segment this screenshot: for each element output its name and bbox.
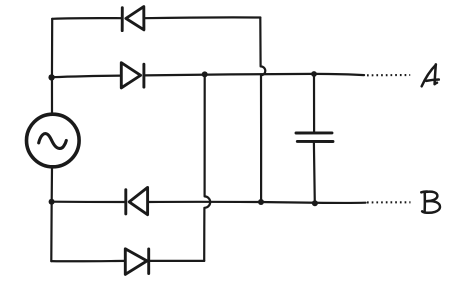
wire row 4 left segment <box>51 260 125 263</box>
node row2 / capacitor junction <box>311 71 317 77</box>
wire row 2 left segment <box>52 76 122 78</box>
node row3-left rail junction <box>49 199 55 205</box>
label A <box>422 64 439 86</box>
wire dotted output B <box>367 201 411 203</box>
AC source V1 circle <box>27 114 80 167</box>
wire right vertical (x=260) with hop over row 2 <box>260 18 265 202</box>
label B <box>421 191 440 212</box>
capacitor C1 top plate <box>296 131 332 134</box>
diode D4 (points right) <box>125 249 148 275</box>
wire dotted output A <box>367 74 410 76</box>
node row2-left rail junction <box>48 74 54 80</box>
capacitor C1 bottom plate <box>297 140 333 143</box>
capacitor C1 bottom lead <box>313 143 316 204</box>
node row3 / right vertical junction <box>258 199 264 205</box>
wire top row left segment <box>52 17 122 20</box>
capacitor C1 top lead <box>313 74 315 132</box>
diode D1 (points left) <box>122 7 144 31</box>
diode D2 (points right) <box>121 63 144 88</box>
wire left rail lower (AC source to bottom corner) <box>50 167 53 261</box>
AC source sine symbol <box>39 134 67 149</box>
wire row 3 right segment <box>148 202 366 203</box>
wire row 4 right segment <box>149 260 204 262</box>
wire bottom-loop vertical (x=204.5) with hop over row 3 <box>204 74 210 261</box>
wire left rail upper (top corner to AC source) <box>51 19 53 115</box>
node row2 / bottom-loop vertical junction <box>202 71 208 77</box>
wire row 2 right segment <box>144 74 364 76</box>
wire top row right segment <box>144 16 260 19</box>
node row3 / capacitor junction <box>312 200 318 206</box>
diode D3 (points left) <box>126 187 148 214</box>
wire row 3 left segment <box>52 201 126 204</box>
